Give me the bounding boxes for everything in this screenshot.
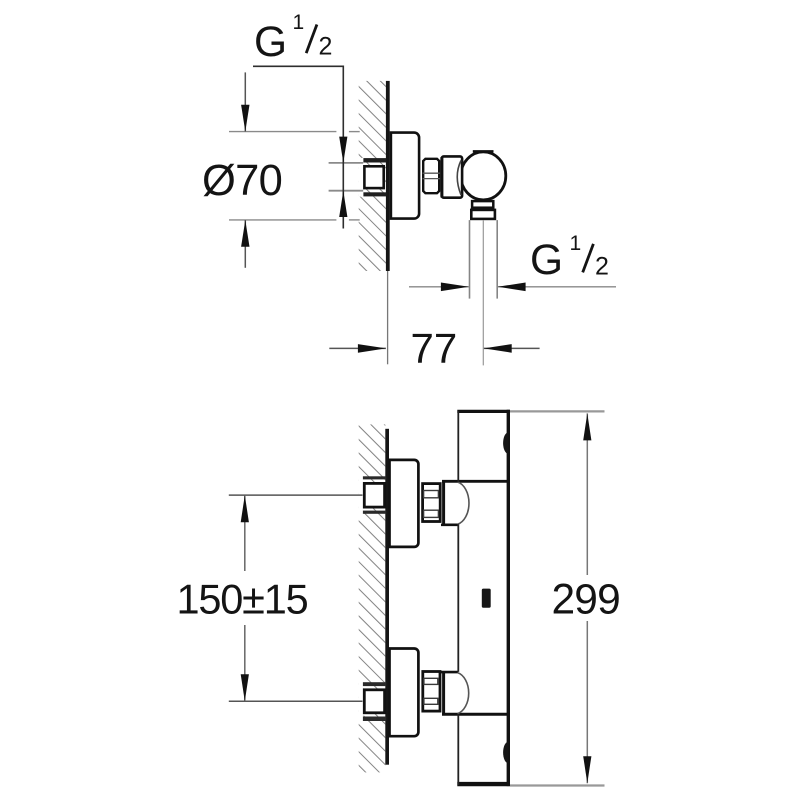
svg-text:1: 1 <box>293 11 305 34</box>
svg-text:1: 1 <box>570 232 582 255</box>
svg-text:Ø70: Ø70 <box>202 157 282 205</box>
svg-text:299: 299 <box>552 577 620 624</box>
svg-text:77: 77 <box>411 325 458 372</box>
svg-text:G: G <box>530 237 563 284</box>
svg-text:2: 2 <box>319 33 333 61</box>
svg-text:150±15: 150±15 <box>177 575 308 622</box>
svg-text:2: 2 <box>595 253 609 281</box>
svg-text:G: G <box>254 19 287 66</box>
